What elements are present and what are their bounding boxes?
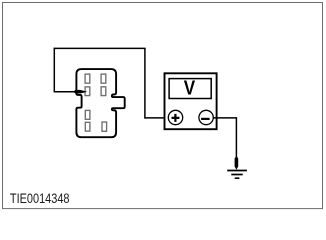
svg-text:V: V (184, 78, 196, 100)
wire segment: horizontal from voltmeter - terminal (213, 117, 237, 119)
voltmeter display (169, 79, 211, 99)
wire segment: horizontal top run (54, 47, 145, 49)
wire segment: horizontal to probed pin (54, 91, 75, 93)
probe arrow at pin (73, 90, 87, 94)
pin top-right row1 (101, 74, 106, 83)
pin top-left row1 (85, 74, 90, 83)
voltmeter - terminal (199, 110, 213, 124)
pin bottom-left row4 (85, 122, 90, 131)
wire segment: vertical drop to ground (235, 117, 237, 157)
connector (76, 69, 124, 137)
wire segment: horizontal into voltmeter + terminal (145, 117, 169, 119)
pin top-right row2 (101, 87, 106, 96)
pin bottom-right row4 (102, 122, 107, 131)
pin top-left row2 (probed) (85, 87, 90, 96)
svg-text:TIE0014348: TIE0014348 (10, 191, 70, 207)
voltmeter + terminal (168, 110, 182, 124)
pin bottom-left row3 (85, 110, 90, 119)
wire segment: vertical right of connector (144, 48, 146, 118)
wire segment: vertical left of connector (53, 48, 55, 92)
voltmeter (165, 73, 217, 129)
ground (227, 156, 247, 178)
